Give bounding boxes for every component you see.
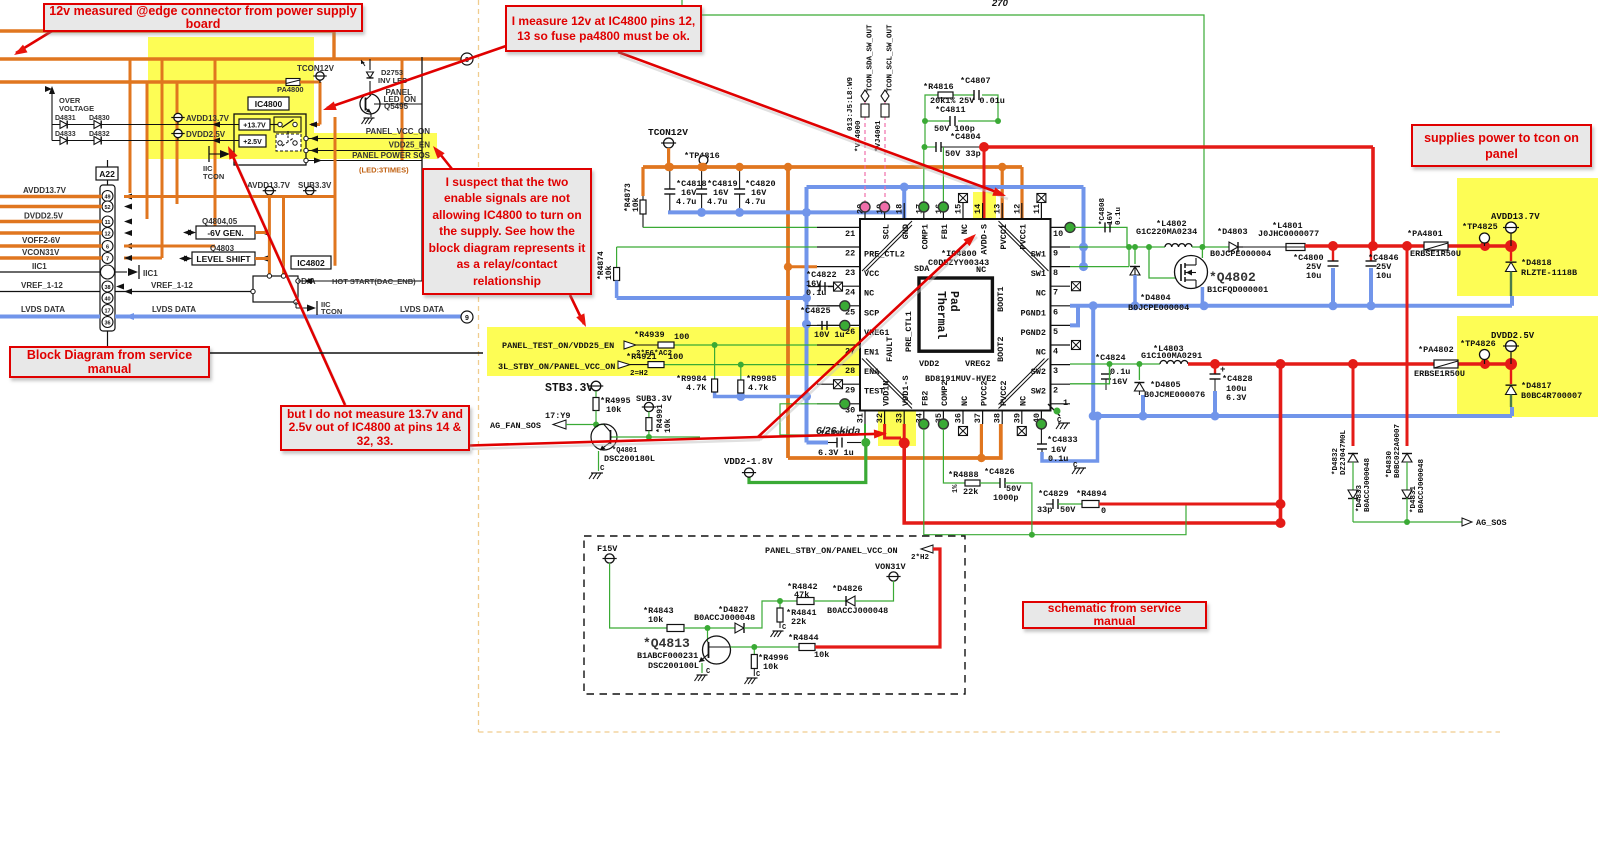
wire orange bus y82 with fuse PA4800 [0,80,286,83]
wire LVDS DATA left blue [0,315,100,319]
capacitor C4833 [1040,429,1042,444]
svg-text:0: 0 [1101,506,1106,516]
wire green D4827 up [744,601,797,628]
pin 15 top [962,203,964,219]
svg-text:AG_SOS: AG_SOS [1476,518,1507,528]
svg-text:*C4833: *C4833 [1047,435,1078,445]
wire green COMP2 net [943,429,965,483]
svg-text:ERBSE1R50U: ERBSE1R50U [1410,249,1461,259]
svg-text:3L_STBY_ON/PANEL_VCC_ON: 3L_STBY_ON/PANEL_VCC_ON [498,362,615,372]
label OVER VOLTAGE [51,91,53,141]
svg-text:37: 37 [973,413,983,423]
leader arrow to pin 13 [618,52,1002,194]
wire orange column x269 [268,195,271,276]
wire red PANEL_STBY out [815,549,940,647]
annotation: schematic from service manual [1022,601,1207,629]
svg-text:16V: 16V [1107,211,1115,225]
wire AVDD13.7V rail left [0,195,102,198]
svg-text:Pad: Pad [947,291,960,312]
svg-text:B0JCPE000004: B0JCPE000004 [1210,249,1271,259]
svg-text:J0JHC0000077: J0JHC0000077 [1258,229,1319,239]
pin 19 pink pad [880,202,890,212]
svg-text:SW2: SW2 [1031,367,1046,377]
pin 9 right [1051,246,1071,248]
wire green collector [731,646,800,648]
pin 17 top [923,203,925,219]
LED D2753 [369,59,371,70]
wire blue C4846 stub [1369,268,1373,306]
svg-text:10u: 10u [1306,271,1321,281]
svg-text:*D4831: *D4831 [1410,485,1418,513]
connector A22 pin 11 [102,216,113,227]
svg-text:*R4816: *R4816 [923,82,954,92]
svg-text:DVDD2.5V: DVDD2.5V [1491,331,1535,341]
yellow highlight pin 14 AVDD-S [973,192,996,259]
svg-text:DVDD2.5V: DVDD2.5V [24,212,64,221]
svg-text:*VJ4000: *VJ4000 [855,120,863,152]
svg-text:NC: NC [1036,289,1046,299]
svg-text:DVDD2.5V: DVDD2.5V [186,130,226,139]
wire orange drop pin13 [1001,167,1004,219]
svg-text:3: 3 [1053,366,1058,376]
svg-text:G1C100MA0291: G1C100MA0291 [1141,351,1202,361]
svg-text:*D4826: *D4826 [832,584,863,594]
leader shadow lines [620,56,1008,199]
svg-text:8: 8 [1053,268,1058,278]
pin 26 left [817,324,860,326]
capacitor C4808 [1070,227,1127,247]
diode D4833 [52,140,239,142]
connector A22 pin 7 [102,253,113,264]
svg-text:*R4844: *R4844 [788,633,819,643]
wire orange column x147 [146,82,149,219]
svg-text:49: 49 [104,195,110,201]
svg-text:*D4805: *D4805 [1150,380,1181,390]
svg-text:PANEL POWER SOS: PANEL POWER SOS [352,151,431,160]
svg-text:*R4939: *R4939 [634,330,665,340]
svg-text:17:Y9: 17:Y9 [545,411,571,421]
svg-text:PA4800: PA4800 [277,85,304,94]
svg-text:LED_ON: LED_ON [384,95,417,104]
capacitor C4828 [1214,364,1216,374]
svg-text:6.3V 1u: 6.3V 1u [818,448,854,458]
wire pin25 SCP [807,305,841,307]
svg-text:PRE_CTL1: PRE_CTL1 [904,311,914,352]
svg-text:DZ2J047M0L: DZ2J047M0L [1340,429,1348,475]
svg-text:ERBSE1R50U: ERBSE1R50U [1414,369,1465,379]
wire orange row y258 [124,257,162,260]
svg-text:4.7k: 4.7k [748,383,768,393]
wire LVDS DATA mid blue [115,315,461,319]
connector A22 pin 40 [102,293,113,304]
svg-text:D4832: D4832 [89,131,110,138]
svg-text:TCON_SDA_SW_OUT: TCON_SDA_SW_OUT [867,24,875,92]
svg-text:VREF_1-12: VREF_1-12 [151,281,193,290]
svg-text:EN1: EN1 [864,348,879,358]
terminal AVDD13.7V [174,113,182,121]
wire blue C4800 stub [1331,268,1335,306]
svg-text:1%: 1% [952,484,960,493]
pin 34 green pad [919,419,929,429]
svg-text:*D4817: *D4817 [1521,381,1552,391]
svg-text:1000p: 1000p [993,493,1019,503]
svg-text:*C4826: *C4826 [984,467,1015,477]
svg-text:PVCC2: PVCC2 [979,380,989,406]
pin 27 left [817,344,860,346]
wire orange relay feed [300,81,320,84]
pin 10 green pad [1065,222,1075,232]
inset dashed box [584,536,965,694]
yellow highlight pins 32,33 VDD1 [878,377,916,446]
resistor R9984 [714,345,716,379]
wire orange column x788 [786,167,790,458]
svg-text:FB1: FB1 [940,224,950,239]
wire green pin16 drop [942,147,944,207]
svg-text:SUB3.3V: SUB3.3V [298,181,332,190]
svg-text:*Q4813: *Q4813 [643,636,690,651]
svg-text:36: 36 [104,321,110,327]
svg-text:VCC: VCC [864,269,879,279]
pin 40 bottom [1040,411,1042,425]
svg-text:VREG2: VREG2 [965,359,991,369]
svg-text:PGND1: PGND1 [1020,308,1046,318]
svg-text:VDD2-1.8V: VDD2-1.8V [724,457,773,467]
wire green thick VDD2 [749,443,866,483]
pin 13 top [1001,203,1003,219]
wire VREF_1-12 left [0,291,100,293]
svg-text:52: 52 [104,205,110,211]
pin 22 left [817,246,860,248]
pin 18 top [903,203,905,219]
pin 5 right [1051,324,1071,326]
svg-text:33: 33 [895,413,905,423]
pin 24 left [817,285,860,287]
pin 19 top [884,203,886,219]
wire red DVDD rail [1188,362,1512,366]
svg-text:50V: 50V [1060,505,1076,515]
svg-text:6.3V: 6.3V [1226,393,1247,403]
pin 37 bottom [982,411,984,425]
transistor Q4813 [707,628,709,641]
pin 25 left [817,305,860,307]
diode D4831 [52,124,239,126]
svg-text:4.7u: 4.7u [707,197,727,207]
ground Q4801 [598,451,600,471]
svg-text:4.7k: 4.7k [686,383,706,393]
svg-text:B0JCME000076: B0JCME000076 [1144,390,1205,400]
wire PANEL_VCC_ON row [304,136,308,140]
yellow highlight AVDD13.7V output [1457,178,1598,296]
svg-text:SUB3.3V: SUB3.3V [636,394,673,404]
connector A22 pin 6 [102,241,113,252]
svg-text:31: 31 [856,413,866,423]
pin 8 right [1051,266,1071,268]
svg-text:10k: 10k [632,197,641,212]
svg-text:*D4830: *D4830 [1386,450,1394,478]
svg-text:100: 100 [668,352,683,362]
svg-text:*PA4802: *PA4802 [1418,345,1454,355]
pin 33 bottom [903,411,905,425]
svg-text:23: 23 [845,268,855,278]
pin 25 green pad [840,301,850,311]
svg-text:B0ACCJ000048: B0ACCJ000048 [694,613,755,623]
svg-text:33p: 33p [1037,505,1052,515]
svg-text:*R4894: *R4894 [1076,489,1107,499]
svg-text:11: 11 [105,220,111,226]
svg-text:PANEL_STBY_ON/PANEL_VCC_ON: PANEL_STBY_ON/PANEL_VCC_ON [765,546,898,556]
wire orange row y246 [124,245,215,248]
svg-text:25V 0.01u: 25V 0.01u [959,96,1005,106]
svg-text:2*H2: 2*H2 [911,554,930,562]
svg-text:VCON31V: VCON31V [22,248,60,257]
leader arrow to IIC TCON [230,150,345,405]
leader arrow to PANEL_TEST row [570,295,584,324]
ground Q4813 emitter [701,663,703,673]
svg-text:40: 40 [104,297,110,303]
svg-text:NC: NC [864,289,874,299]
wire VDD25_EN row [304,148,308,152]
svg-text:17: 17 [104,309,110,315]
capacitor C4800 [1332,246,1334,261]
wire red AVDD rail [1305,244,1512,248]
leader arrow to pins 32 33 [470,437,758,446]
wire orange drop pin12 [1020,167,1023,219]
svg-text:TCON: TCON [203,172,224,181]
svg-text:12: 12 [104,232,110,238]
wire orange column x402 [401,59,404,161]
wire red pin32 [885,424,901,438]
block IC4802 D/A [291,256,331,269]
svg-text:4.7u: 4.7u [745,197,765,207]
pin 2 right [1051,383,1071,385]
svg-text:GND: GND [901,224,911,239]
connector A22 pin 38 [102,281,113,292]
svg-text:NC: NC [1019,396,1029,406]
svg-text:TCON_SCL_SW_OUT: TCON_SCL_SW_OUT [887,24,895,92]
wire orange column x177 [176,82,179,204]
svg-text:DSC200180L: DSC200180L [604,454,655,464]
svg-text:C: C [1073,462,1078,470]
svg-text:PRE_CTL2: PRE_CTL2 [864,250,905,260]
pin 39 NC box [1017,427,1026,436]
svg-text:COMP1: COMP1 [921,224,931,250]
thermal pad [919,278,992,351]
svg-text:+13.7V: +13.7V [243,123,266,130]
resistor R4874 [616,247,618,268]
pin 35 bottom [942,411,944,425]
node 9 off-page [461,311,473,323]
zener D4818 [1510,246,1512,261]
svg-text:013:J5:L8:W9: 013:J5:L8:W9 [847,76,855,131]
svg-text:IC4800: IC4800 [255,99,283,109]
svg-text:ENA: ENA [864,367,880,377]
svg-text:4.7u: 4.7u [676,197,696,207]
svg-text:DSC200100L: DSC200100L [648,661,699,671]
svg-text:*C4825: *C4825 [800,306,831,316]
wire HOT START [298,280,422,282]
pin 20 top [864,203,866,219]
svg-text:B0BC022A0007: B0BC022A0007 [1394,424,1402,478]
svg-text:22k: 22k [963,487,978,497]
diode D4830 [94,121,101,129]
svg-text:FB2: FB2 [921,391,931,406]
wire green C4826 to FB [1005,483,1032,535]
yellow highlight PANEL_TEST/STBY enable band [487,327,885,376]
wire blue right vertical x1083 [1082,187,1086,267]
svg-text:10k: 10k [605,265,614,280]
pin 1 corner lead [1048,404,1060,416]
RC network R4816 C4807 loop [925,95,938,121]
regulator +2.5V [239,135,266,147]
svg-text:38: 38 [993,413,1003,423]
svg-text:0.1u: 0.1u [1110,367,1130,377]
svg-text:RLZTE-1118B: RLZTE-1118B [1521,268,1577,278]
pin 7 NC box [1072,282,1081,291]
regulator +13.7V [239,119,270,130]
svg-text:A22: A22 [99,169,115,179]
svg-text:14: 14 [973,204,983,214]
pin 23 left [817,266,860,268]
wire blue row y298 [617,296,807,300]
svg-text:B0JCPE000004: B0JCPE000004 [1128,303,1189,313]
pin 29 left [817,383,860,385]
svg-text:FAULT: FAULT [885,336,895,362]
resistor R4816 [938,92,953,98]
svg-text:-6V GEN.: -6V GEN. [207,228,243,238]
pin 30 green pad [840,399,850,409]
wire orange column x283 [282,197,285,277]
wire DVDD2.5V rail left [0,220,102,223]
svg-text:1: 1 [1063,398,1068,408]
svg-text:PVCC1: PVCC1 [1019,224,1029,250]
svg-text:IIC1: IIC1 [143,269,158,278]
svg-text:D4831: D4831 [55,115,76,122]
svg-text:NC: NC [1036,348,1046,358]
IIC TCON stub DA [294,300,298,304]
wire orange riser x334 [332,31,335,60]
svg-text:*C4811: *C4811 [935,105,966,115]
annotation: supplies power [1411,124,1592,167]
svg-text:B1ABCF000231: B1ABCF000231 [637,651,698,661]
resistor R4995 [595,391,597,398]
svg-text:NC: NC [960,224,970,234]
wire red pin14 AVDD-S drop [983,147,986,219]
svg-text:AVDD13.7V: AVDD13.7V [1491,212,1540,222]
leader arrow to AVDD-S [758,237,973,438]
svg-text:6: 6 [106,245,109,251]
wire orange bus y167 [643,165,1022,169]
capacitor C4827 [847,442,861,444]
wire blue caps rail y212 [668,210,904,214]
svg-text:PANEL_TEST_ON/VDD25_EN: PANEL_TEST_ON/VDD25_EN [502,341,614,351]
pin 6 right [1051,305,1071,307]
relay contact solid [274,117,301,132]
wire orange row y196 [124,195,335,198]
capacitor C4807 [973,90,975,100]
svg-text:SW1: SW1 [1031,250,1046,260]
wire green FB2 pin34 [924,429,1186,535]
wire orange column x335 [334,117,337,266]
wire blue bus A y187 [807,185,1084,189]
connector A22 pin 12 [102,228,113,239]
pin 12 top [1021,203,1023,219]
wire VCON31V rail left [0,256,102,259]
svg-text:38: 38 [104,285,110,291]
svg-text:D4833: D4833 [55,131,76,138]
capacitor C4804 [925,146,937,148]
wire red pin33 [903,424,906,443]
svg-text:IIC1: IIC1 [32,262,47,271]
svg-text:24: 24 [845,288,855,298]
svg-text:SCL: SCL [881,224,891,239]
resistor R4888 [965,480,980,486]
wire blue DVDD stubs [1141,395,1145,416]
svg-text:AVDD13.7V: AVDD13.7V [186,114,230,123]
transistor Q5495 [369,81,371,96]
pin 7 right [1051,285,1071,287]
svg-text:(LED:3TIMES): (LED:3TIMES) [359,166,409,175]
svg-text:21: 21 [845,229,855,239]
wire green F15V [610,563,667,628]
wire red VDD1 down [904,443,1280,523]
leader arrow to power edge [16,31,52,53]
pin 14 top [982,203,984,219]
IIC TCON stub [208,146,210,162]
svg-text:C: C [706,668,710,676]
pin 28 left [817,364,860,366]
svg-text:HOT START(DAC_ENB): HOT START(DAC_ENB) [332,277,416,286]
svg-text:22: 22 [845,249,855,259]
svg-text:10: 10 [1053,229,1063,239]
page boundary dashed line [478,0,480,732]
connector A22 pin 52 [102,201,113,212]
svg-text:*R4921: *R4921 [626,352,657,362]
svg-text:13: 13 [993,204,1003,214]
svg-text:LEVEL SHIFT: LEVEL SHIFT [196,254,251,264]
svg-text:PVCC2: PVCC2 [999,380,1009,406]
capacitor C4846 [1370,246,1372,261]
wire red D4832 feed [1352,364,1355,446]
wire blue bus2 link x1093 [1091,306,1095,416]
wire VOFF2-6V rail left [0,244,102,247]
wire green VDD2 pin31 [864,424,866,443]
resistor R4996 [753,647,755,655]
svg-text:C: C [782,624,786,632]
svg-text:*D4818: *D4818 [1521,258,1552,268]
pin 36 NC box [959,427,968,436]
svg-text:B1CFQD000001: B1CFQD000001 [1207,285,1268,295]
wire vertical bus x422 [421,57,423,281]
svg-text:6: 6 [1053,307,1058,317]
svg-text:VDD1-S: VDD1-S [901,375,911,406]
wire green EN1 row [674,344,817,346]
pin 20 pink pad [860,202,870,212]
wire orange column x130 [129,59,132,193]
svg-text:100: 100 [674,332,689,342]
diode D4804 [1134,247,1136,264]
diode D4832 [94,137,101,145]
pin 35 green pad [938,419,948,429]
svg-text:PGND2: PGND2 [1020,328,1046,338]
wire red AVDD top rail [984,145,1373,149]
pin 26 green pad [840,320,850,330]
wire red R4894 out [1099,503,1281,506]
svg-text:VDD25_EN: VDD25_EN [389,141,431,150]
pin 1 right [1051,403,1071,405]
wire red riser x1280 [1279,364,1283,523]
wire orange bus y59 [0,57,461,60]
svg-text:*D4832: *D4832 [1332,447,1340,475]
